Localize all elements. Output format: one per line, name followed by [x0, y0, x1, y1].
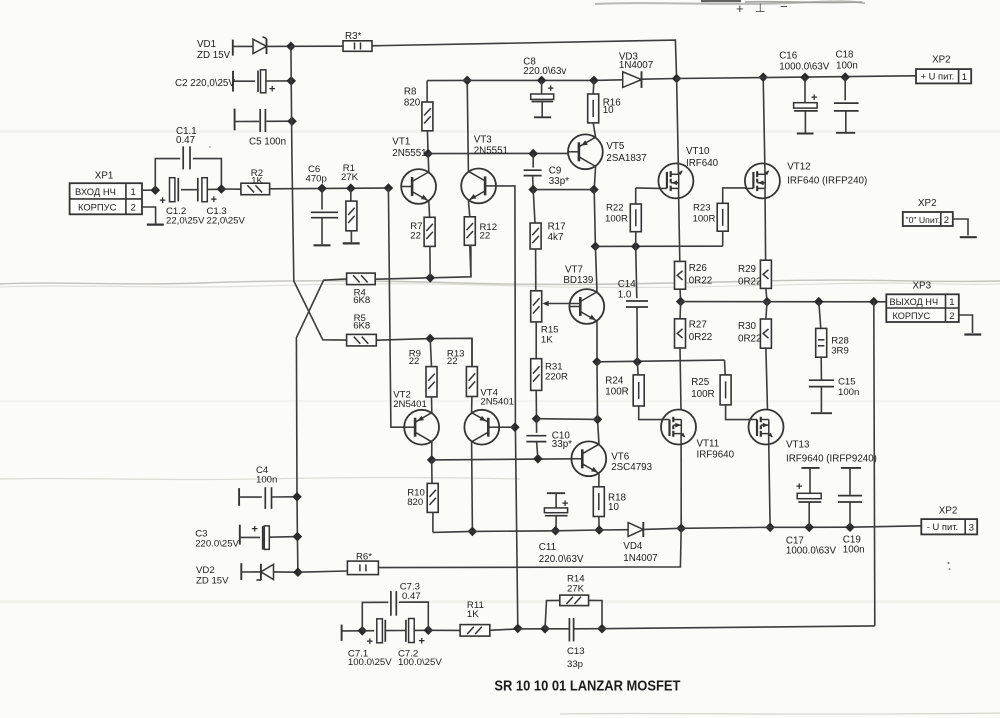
svg-text:КОРПУС: КОРПУС [893, 311, 931, 321]
svg-text:R8: R8 [404, 86, 417, 97]
svg-text:10: 10 [603, 105, 614, 116]
svg-text:R24: R24 [605, 375, 624, 386]
svg-text:22,0\25V: 22,0\25V [166, 215, 205, 226]
svg-text:КОРПУС: КОРПУС [78, 202, 117, 213]
svg-text:R22: R22 [606, 203, 624, 214]
svg-text:R3*: R3* [345, 31, 362, 42]
svg-text:+ U пит.: + U пит. [921, 71, 955, 82]
svg-text:+: + [252, 523, 258, 535]
svg-text:VD2: VD2 [196, 565, 215, 576]
svg-text:BD139: BD139 [563, 275, 593, 286]
svg-text:1N4007: 1N4007 [623, 553, 657, 564]
svg-text:6K8: 6K8 [353, 320, 370, 331]
svg-text:VT1: VT1 [392, 136, 410, 147]
svg-text:2N5401: 2N5401 [393, 399, 427, 410]
svg-text:C11: C11 [539, 542, 556, 553]
svg-text:1000.0\63V: 1000.0\63V [779, 62, 830, 73]
svg-text:27K: 27K [567, 584, 585, 595]
svg-text:+: + [736, 1, 744, 16]
svg-text:VD1: VD1 [197, 39, 216, 50]
svg-text:2N5551: 2N5551 [474, 146, 508, 157]
svg-text:33p*: 33p* [552, 439, 572, 450]
svg-text:1K: 1K [467, 609, 479, 620]
svg-text:2N5401: 2N5401 [480, 397, 514, 408]
svg-text:+: + [211, 194, 217, 206]
svg-text:3: 3 [969, 523, 974, 534]
svg-text:ВЫХОД НЧ: ВЫХОД НЧ [890, 297, 939, 307]
svg-text:100n: 100n [836, 61, 858, 72]
svg-text:1: 1 [949, 297, 954, 308]
svg-text:+: + [548, 83, 554, 95]
svg-text:R17: R17 [548, 221, 566, 232]
svg-text:220.0\25V: 220.0\25V [195, 539, 239, 550]
svg-text:2SA1837: 2SA1837 [606, 153, 646, 164]
svg-text:C18: C18 [836, 50, 855, 61]
svg-text:470p: 470p [306, 173, 327, 184]
svg-text:+: + [419, 635, 425, 647]
svg-text:0.47: 0.47 [176, 135, 195, 146]
svg-text:220R: 220R [545, 371, 568, 382]
svg-text:XP3: XP3 [913, 280, 932, 291]
svg-text:ZD 15V: ZD 15V [196, 576, 229, 587]
svg-text:VT13: VT13 [786, 439, 810, 450]
svg-text:100R: 100R [605, 387, 628, 398]
svg-text:33p*: 33p* [549, 176, 569, 187]
svg-text:22: 22 [409, 356, 420, 367]
svg-text:10: 10 [608, 502, 619, 513]
svg-text:SR 10 10 01 LANZAR MOSFET: SR 10 10 01 LANZAR MOSFET [494, 678, 681, 695]
svg-text:VT12: VT12 [787, 162, 810, 173]
svg-text:22: 22 [447, 356, 458, 367]
svg-text:C9: C9 [549, 165, 562, 176]
svg-text:100n: 100n [256, 475, 277, 486]
svg-text:1K: 1K [251, 175, 263, 186]
svg-text:100R: 100R [691, 389, 714, 400]
svg-text:+: + [159, 195, 165, 207]
svg-text:1000.0\63V: 1000.0\63V [786, 545, 837, 556]
svg-text:100.0\25V: 100.0\25V [348, 657, 392, 668]
svg-text:1.0: 1.0 [618, 289, 632, 300]
svg-text:R27: R27 [689, 320, 707, 331]
svg-text:"0" Uпит.: "0" Uпит. [906, 215, 941, 225]
svg-text:100.0\25V: 100.0\25V [398, 657, 442, 668]
svg-text:VT10: VT10 [686, 146, 710, 157]
svg-text:C13: C13 [567, 646, 585, 657]
svg-text:27K: 27K [341, 172, 359, 183]
svg-text:4k7: 4k7 [548, 232, 564, 243]
svg-text:1: 1 [131, 187, 136, 198]
svg-text:+: + [796, 481, 802, 493]
svg-text:6K8: 6K8 [353, 295, 370, 306]
svg-text:IRF640 (IRFP240): IRF640 (IRFP240) [787, 176, 867, 187]
svg-text:+: + [269, 84, 275, 96]
svg-text:0.47: 0.47 [402, 591, 421, 602]
svg-text:820: 820 [407, 497, 423, 508]
svg-text:- U пит.: - U пит. [927, 521, 958, 532]
svg-text:2: 2 [131, 203, 136, 214]
svg-text:100n: 100n [838, 387, 859, 398]
svg-text:R30: R30 [738, 321, 757, 332]
svg-text:IRF9640 (IRFP9240): IRF9640 (IRFP9240) [786, 454, 877, 465]
svg-text:⊥: ⊥ [755, 1, 765, 15]
svg-text:22,0\25V: 22,0\25V [207, 215, 246, 226]
svg-text:2SC4793: 2SC4793 [611, 462, 652, 473]
svg-text:22: 22 [410, 230, 421, 241]
svg-text:VT5: VT5 [606, 141, 625, 152]
svg-text:820: 820 [404, 98, 421, 109]
svg-text:1K: 1K [541, 335, 553, 346]
svg-text:R26: R26 [689, 263, 708, 274]
svg-text:R25: R25 [691, 377, 710, 388]
svg-text:IRF9640: IRF9640 [697, 450, 735, 461]
svg-text:2: 2 [944, 215, 949, 226]
svg-text:+: + [811, 92, 817, 104]
svg-text:R29: R29 [738, 264, 756, 275]
svg-text:XP2: XP2 [932, 54, 951, 65]
svg-text:3R9: 3R9 [831, 345, 849, 356]
svg-text:+: + [367, 636, 373, 648]
svg-text:R23: R23 [693, 203, 711, 214]
svg-text:−: − [780, 0, 788, 14]
svg-text:0R22: 0R22 [738, 277, 761, 288]
svg-text:C2 220,0\25V: C2 220,0\25V [175, 78, 235, 89]
svg-text:1N4007: 1N4007 [619, 60, 653, 71]
svg-text:C15: C15 [838, 376, 856, 387]
svg-text:VT7: VT7 [565, 265, 583, 276]
svg-text:0R22: 0R22 [689, 276, 712, 287]
svg-text:33p: 33p [567, 659, 583, 670]
svg-text:0R22: 0R22 [689, 332, 712, 343]
svg-text:0R22: 0R22 [738, 334, 761, 345]
svg-text:2N5551: 2N5551 [392, 148, 426, 159]
svg-text:100R: 100R [693, 214, 716, 225]
svg-text:R6*: R6* [356, 551, 372, 562]
svg-text:100R: 100R [605, 214, 628, 225]
svg-text:220.0\63v: 220.0\63v [523, 66, 566, 77]
svg-text:ZD 15V: ZD 15V [197, 50, 231, 61]
svg-text:22: 22 [480, 231, 491, 242]
svg-text:VT11: VT11 [697, 438, 720, 449]
svg-text:VD4: VD4 [623, 541, 643, 552]
svg-text:2: 2 [949, 311, 954, 322]
svg-text:XP1: XP1 [95, 171, 114, 182]
svg-text:IRF640: IRF640 [686, 158, 719, 169]
svg-text:VT3: VT3 [474, 135, 493, 146]
svg-text:100n: 100n [843, 545, 865, 556]
svg-text:XP2: XP2 [939, 506, 958, 517]
svg-text:C5 100n: C5 100n [249, 137, 286, 148]
svg-text:220.0\63V: 220.0\63V [539, 554, 584, 565]
svg-text:XP2: XP2 [918, 198, 937, 209]
svg-text:VT6: VT6 [611, 451, 630, 462]
svg-text:1: 1 [962, 72, 967, 83]
svg-text:ВХОД НЧ: ВХОД НЧ [75, 186, 116, 197]
svg-text:C16: C16 [779, 51, 798, 62]
